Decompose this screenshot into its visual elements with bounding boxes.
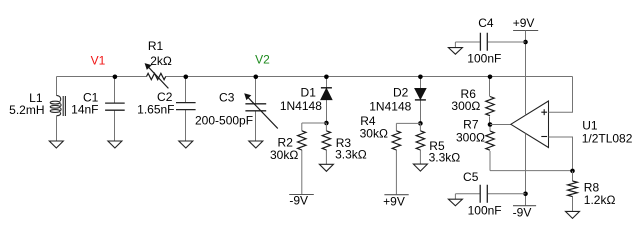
inductor L1 5.2mH [50,95,65,116]
node dot C5/-9V [523,192,528,197]
svg-text:1N4148: 1N4148 [369,99,411,113]
node dot feedback/R8 [570,169,575,174]
node dot C3 [254,75,259,80]
wire L1 top riser [56,77,58,96]
svg-text:30kΩ: 30kΩ [270,148,298,162]
svg-text:R1: R1 [148,39,164,53]
svg-text:V1: V1 [91,53,106,67]
ground (L1) [49,141,63,148]
svg-text:-9V: -9V [289,193,308,207]
wire op-amp + input from top rail [549,77,573,113]
svg-text:100nF: 100nF [467,52,501,66]
resistor R3 3.3k [325,123,327,164]
node dot R6 top [488,75,493,80]
svg-text:100nF: 100nF [468,204,502,218]
svg-text:30kΩ: 30kΩ [360,127,388,141]
node dot C1 [113,75,118,80]
node dot C2 [184,75,189,80]
node dot R6/R7 junction [488,122,493,127]
diode D1 1N4148 (cathode up) [326,77,328,124]
wire op-amp V- to -9V rail [525,134,527,206]
node dot D2 top [418,75,423,80]
node dot D2 bottom [418,121,423,126]
supply -9V (bottom) [513,205,536,207]
ground (R8) [566,211,580,218]
svg-text:300Ω: 300Ω [456,131,485,145]
resistor R1 2k (variable) [147,73,166,79]
svg-text:V2: V2 [255,53,270,67]
resistor R7 300 [489,125,491,171]
wire main top rail [57,76,573,78]
svg-text:D1: D1 [301,86,317,100]
svg-text:1/2TL082: 1/2TL082 [582,131,633,145]
wire op-amp output to R6/R7 junction [490,124,511,126]
ground (R5) [413,164,427,171]
capacitor C4 100nF [455,41,525,43]
svg-text:+9V: +9V [513,16,535,30]
svg-text:200-500pF: 200-500pF [195,113,253,127]
ground (C5) [454,194,456,199]
wire D2 node to R4 [396,122,420,124]
wire +9V rail to op-amp V+ [525,31,527,116]
resistor R5 3.3k [419,123,421,164]
svg-text:3.3kΩ: 3.3kΩ [429,150,461,164]
ground (C1) [108,141,122,148]
svg-text:C3: C3 [219,91,235,105]
svg-text:-9V: -9V [513,206,532,220]
capacitor C3 200-500pF (variable) [255,77,257,142]
ground (C4) [454,42,456,48]
svg-text:1N4148: 1N4148 [280,99,322,113]
wire op-amp - input to feedback [549,137,573,171]
node dot C4/+9V [523,40,528,45]
svg-text:D2: D2 [393,85,409,99]
resistor R6 300 [489,77,491,125]
op-amp U1 1/2TL082 [511,101,549,148]
supply -9V (below R2) [289,194,314,196]
ground (R3) [319,164,333,171]
svg-text:300Ω: 300Ω [451,99,480,113]
svg-text:2kΩ: 2kΩ [150,54,172,68]
resistor R8 1.2k [572,171,574,212]
supply +9V (below R4) [384,194,408,196]
capacitor C5 100nF [455,193,525,195]
svg-text:C4: C4 [478,16,494,30]
supply +9V (top) [513,30,538,32]
resistor R4 30k [395,123,397,194]
resistor R2 30k [301,123,303,195]
ground (C2) [179,141,193,148]
svg-text:1.2kΩ: 1.2kΩ [584,193,616,207]
node dot D1 bottom [324,121,329,126]
capacitor C1 14nF [114,77,116,142]
svg-text:C5: C5 [463,170,479,184]
capacitor C2 1.65nF [185,77,187,142]
svg-text:1.65nF: 1.65nF [137,103,174,117]
diode D2 1N4148 (cathode down) [420,77,422,124]
wire D1 node to R2 [302,122,327,124]
node dot D1 top [324,75,329,80]
wire feedback bottom (R7 to R8 node) [490,170,573,172]
svg-text:+9V: +9V [383,195,405,209]
svg-text:3.3kΩ: 3.3kΩ [335,148,367,162]
svg-text:R7: R7 [463,118,479,132]
svg-text:14nF: 14nF [71,102,98,116]
svg-text:5.2mH: 5.2mH [9,103,44,117]
ground (C3) [249,141,263,148]
wire L1 to ground [56,116,58,141]
